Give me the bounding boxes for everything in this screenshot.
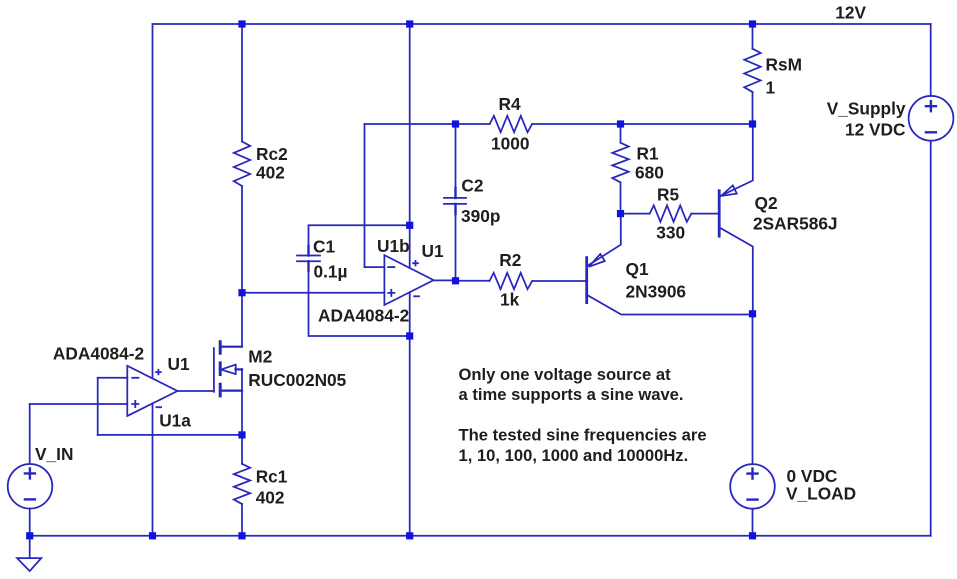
transistor M2 source stub [220, 390, 242, 392]
resistor R4 [490, 116, 533, 132]
wire Rc2 to M2 drain [241, 186, 243, 347]
svg-text:R1: R1 [637, 144, 659, 164]
svg-text:V_IN: V_IN [35, 444, 73, 464]
svg-text:2SAR586J: 2SAR586J [753, 213, 838, 233]
transistor Q1 emitter arrow [589, 254, 605, 267]
capacitor C1 stubs [307, 246, 309, 271]
resistor R1 [612, 143, 628, 183]
wire V_IN top lead [29, 404, 31, 464]
svg-text:1, 10, 100, 1000 and 10000Hz.: 1, 10, 100, 1000 and 10000Hz. [459, 446, 689, 465]
voltage source V_IN circle [8, 464, 53, 509]
wire C1 bottom lead [309, 261, 410, 336]
svg-text:V_Supply: V_Supply [827, 98, 906, 118]
svg-text:ADA4084-2: ADA4084-2 [318, 306, 409, 326]
op-amp U1a triangle [127, 366, 177, 416]
ground triangle [17, 558, 41, 571]
transistor Q2 emitter arrow [721, 185, 737, 196]
wire C1 top lead [309, 225, 410, 255]
wire U1a feedback horizontal [98, 434, 242, 436]
wire M2 drain to U1b noninverting input [242, 292, 384, 294]
svg-text:12V: 12V [835, 2, 866, 22]
node M2 source tap [238, 431, 245, 438]
wire top bus [153, 23, 931, 25]
node bottom bus / Rc1 [238, 532, 245, 539]
svg-text:The tested sine frequencies ar: The tested sine frequencies are [459, 426, 707, 445]
wire left bus upper (U1a V+ rail) [152, 24, 154, 378]
node top bus / Rc2 [238, 20, 245, 27]
wire R1 node to RsM node [621, 123, 753, 125]
node top bus / rail [406, 20, 413, 27]
op-amp U1b triangle [384, 255, 433, 305]
resistor Rc2 [234, 142, 250, 187]
resistor Rc1 [234, 464, 250, 504]
V_Supply plus [925, 100, 937, 112]
svg-text:Q2: Q2 [755, 193, 778, 213]
svg-text:V_LOAD: V_LOAD [786, 484, 856, 504]
V_IN minus [24, 498, 36, 500]
wire supply rail upper (U1b V+ rail) [409, 24, 411, 268]
svg-text:M2: M2 [248, 347, 272, 367]
wire C2 to R4 node [455, 124, 457, 198]
svg-text:Rc1: Rc1 [256, 467, 288, 487]
node R1 / R5 / Q1 emitter [617, 210, 624, 217]
transistor Q1 emitter [587, 214, 621, 267]
U1b noninverting mark [387, 289, 395, 297]
U1b supply minus mark [413, 295, 420, 297]
capacitor C1 [297, 256, 320, 262]
wire U1a feedback vertical [97, 378, 99, 435]
node C1 top / rail [406, 222, 413, 229]
wire R1 bottom lead [620, 182, 622, 213]
ground stem [29, 536, 31, 558]
svg-text:U1: U1 [422, 241, 444, 261]
svg-text:U1: U1 [168, 354, 190, 374]
transistor M2 channel segments [219, 342, 222, 396]
capacitor C2 [444, 198, 466, 204]
resistor RsM [744, 49, 760, 92]
wire R4 left lead [456, 123, 490, 125]
wire U1b feedback horizontal [365, 123, 456, 125]
wire right bus lower [930, 141, 932, 536]
wire right bus upper [930, 24, 932, 96]
wire U1b feedback vertical [364, 124, 366, 267]
transistor Q2 emitter [719, 124, 753, 197]
wire R5 to Q2 base [691, 213, 719, 215]
svg-text:0.1µ: 0.1µ [314, 262, 348, 282]
U1a noninverting mark [131, 400, 139, 408]
op-amp input/supply marks [131, 260, 420, 408]
svg-text:U1b: U1b [377, 236, 410, 256]
svg-text:330: 330 [656, 223, 685, 243]
svg-text:Q1: Q1 [626, 259, 649, 279]
wire left bus lower (U1a V- rail) [152, 404, 154, 536]
svg-text:R5: R5 [657, 185, 679, 205]
transistor M2 gate bar [213, 348, 215, 392]
transistor Q2 collector [719, 227, 753, 313]
wire R2 left lead [456, 280, 490, 282]
note text [459, 365, 707, 465]
node RsM bottom / Q2 emitter [749, 120, 756, 127]
U1a supply minus mark [156, 406, 163, 408]
node bottom bus / left rail [149, 532, 156, 539]
U1a inverting mark [131, 377, 139, 379]
wire R2 to Q1 base [532, 280, 587, 282]
wire R5 left lead [621, 213, 650, 215]
U1a supply plus mark [155, 369, 162, 375]
svg-text:Rc2: Rc2 [256, 144, 288, 164]
transistor Q1 bar [585, 258, 588, 303]
node U1b output [452, 277, 459, 284]
V_LOAD plus [746, 467, 758, 479]
svg-text:C1: C1 [313, 236, 335, 256]
transistor M2 drain stub [220, 346, 242, 348]
svg-text:402: 402 [256, 163, 285, 183]
wire V_LOAD to bottom bus [752, 509, 754, 536]
voltage source V_Supply circle [909, 96, 954, 141]
node C1 bottom / rail [406, 332, 413, 339]
wire U1a output to M2 gate [178, 390, 214, 392]
svg-text:RsM: RsM [766, 55, 803, 75]
wire U1b output [434, 279, 456, 281]
wire V_IN bottom lead [29, 509, 31, 536]
wire V_IN to U1a noninverting input [30, 403, 128, 405]
wire R1 top lead [620, 124, 622, 143]
wire supply rail lower (U1b V- rail) [409, 292, 411, 536]
wire Q2 collector node to V_LOAD [752, 314, 754, 464]
wire U1b inverting stub [365, 266, 385, 268]
wire bottom bus [30, 535, 931, 537]
U1b supply plus mark [412, 260, 419, 266]
svg-text:a time supports a sine wave.: a time supports a sine wave. [459, 385, 684, 404]
capacitor C2 stubs [454, 188, 456, 214]
source polarity marks [24, 100, 937, 500]
svg-text:RUC002N05: RUC002N05 [248, 370, 346, 390]
transistor Q2 bar [718, 191, 721, 236]
node bottom bus / supply rail [406, 532, 413, 539]
svg-text:680: 680 [635, 163, 664, 183]
svg-text:2N3906: 2N3906 [626, 281, 687, 301]
transistor M2 body arrow [221, 365, 236, 375]
svg-text:R4: R4 [499, 94, 521, 114]
node bottom bus / V_IN [26, 532, 33, 539]
wire Rc1 to bottom bus [241, 504, 243, 536]
wire RsM top lead [752, 24, 754, 49]
wire M2 source column [241, 369, 243, 464]
svg-text:12 VDC: 12 VDC [845, 120, 906, 140]
U1b inverting mark [387, 266, 395, 268]
svg-text:1k: 1k [500, 290, 520, 310]
svg-text:C2: C2 [461, 176, 483, 196]
node Q2 collector / Q1 collector [749, 310, 756, 317]
wire Rc2 top lead [241, 24, 243, 142]
node top bus / RsM [749, 20, 756, 27]
resistor R5 [650, 205, 692, 221]
svg-text:ADA4084-2: ADA4084-2 [53, 344, 144, 364]
V_IN plus [24, 467, 36, 479]
node M2 drain tap [238, 289, 245, 296]
svg-text:R2: R2 [499, 250, 521, 270]
svg-text:390p: 390p [461, 206, 500, 226]
svg-text:U1a: U1a [159, 411, 191, 431]
node bottom bus / V_LOAD [749, 532, 756, 539]
V_Supply minus [925, 131, 937, 133]
V_LOAD minus [746, 498, 758, 500]
svg-text:1: 1 [766, 78, 776, 98]
node R4 right / R1 [617, 120, 624, 127]
resistor R2 [490, 273, 533, 289]
svg-text:402: 402 [256, 488, 285, 508]
transistor Q1 collector [587, 295, 753, 315]
wire U1a inverting stub [98, 377, 128, 379]
transistor M2 body stub [236, 368, 243, 370]
wire R4 to R1 node [532, 123, 620, 125]
svg-text:Only one voltage source at: Only one voltage source at [459, 365, 672, 384]
wire U1b output to C2 [455, 204, 457, 281]
wire RsM bottom lead [752, 92, 754, 124]
voltage source V_LOAD circle [730, 464, 775, 509]
svg-text:1000: 1000 [491, 133, 529, 153]
node R4 left [452, 120, 459, 127]
